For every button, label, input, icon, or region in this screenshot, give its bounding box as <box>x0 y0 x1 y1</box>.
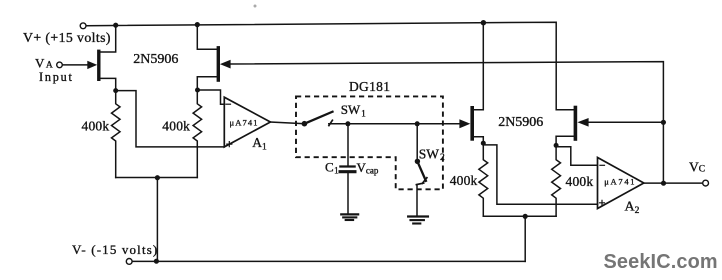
svg-text:V- (-15 volts): V- (-15 volts) <box>72 242 158 257</box>
svg-text:2N5906: 2N5906 <box>498 115 543 130</box>
svg-text:μA741: μA741 <box>230 117 259 127</box>
svg-text:400k: 400k <box>450 173 478 188</box>
svg-text:DG181: DG181 <box>349 79 390 94</box>
svg-text:Input: Input <box>39 70 74 84</box>
svg-text:400k: 400k <box>82 118 110 133</box>
svg-text:400k: 400k <box>162 118 190 133</box>
svg-text:2N5906: 2N5906 <box>133 52 178 67</box>
svg-text:V+ (+15 volts): V+ (+15 volts) <box>23 30 111 46</box>
svg-text:400k: 400k <box>566 174 594 189</box>
svg-text:SeekIC.com: SeekIC.com <box>604 251 718 273</box>
svg-text:μA741: μA741 <box>604 176 636 186</box>
